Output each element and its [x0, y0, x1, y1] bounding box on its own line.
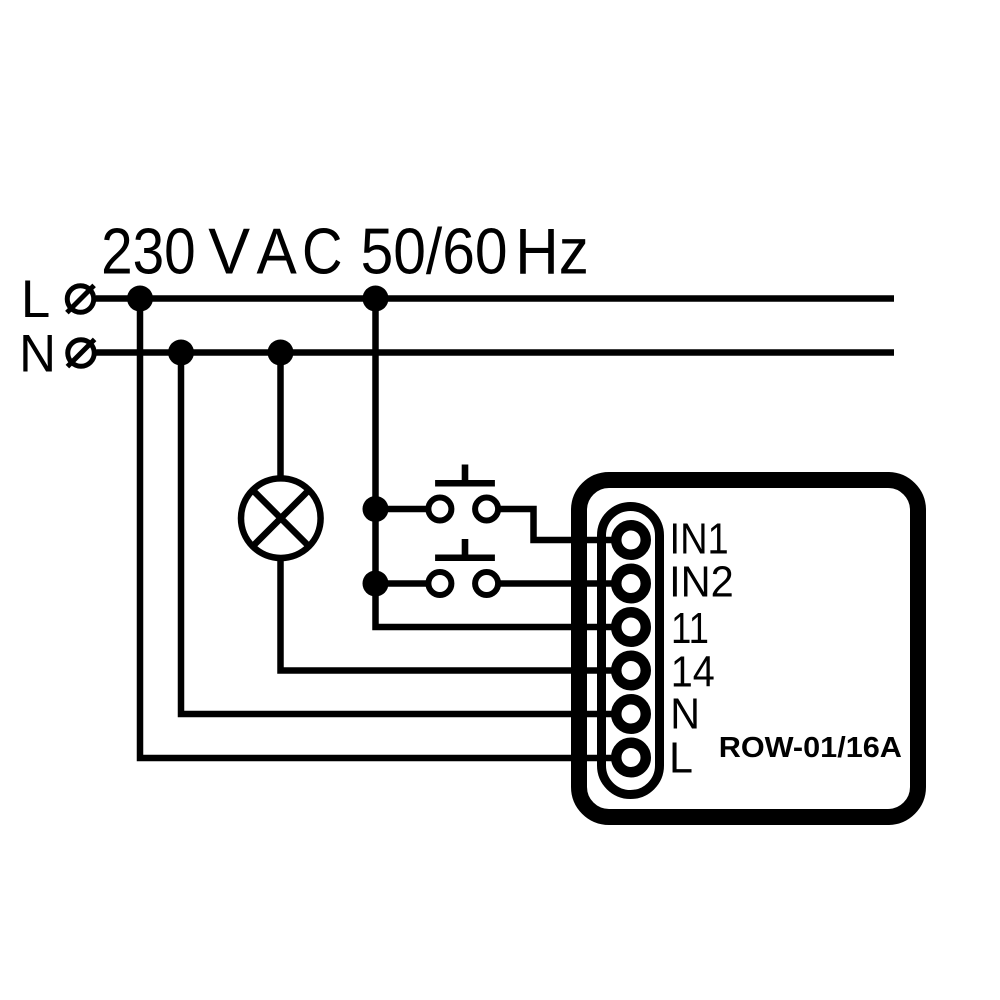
wire: S1 right contact to module terminal IN1	[498, 509, 617, 540]
junction at button S2 tap	[363, 571, 389, 597]
svg-text:230: 230	[101, 215, 196, 287]
terminal 14	[616, 656, 646, 686]
svg-text:11: 11	[671, 604, 709, 653]
svg-text:ROW-01/16A: ROW-01/16A	[719, 732, 902, 764]
push button S1	[428, 465, 498, 521]
junction on L bus at x=140	[127, 286, 153, 312]
wire: tap to S2 left contact	[376, 580, 429, 587]
push button S2	[428, 539, 498, 595]
wire L bus	[96, 295, 894, 302]
wire: L drop at x=375.5 through buttons to module terminal 11	[376, 299, 618, 628]
junction on N bus at x=181	[168, 340, 194, 366]
wire: L drop at x=140 to module terminal L	[140, 299, 617, 759]
terminal IN2	[616, 569, 646, 599]
svg-text:L: L	[669, 734, 693, 782]
wire: lamp bottom to module terminal 14	[281, 558, 618, 671]
svg-text:N: N	[670, 689, 700, 737]
svg-text:C: C	[302, 215, 342, 288]
title: 230 V AC 50/60 Hz	[101, 214, 589, 288]
svg-text:L: L	[21, 270, 50, 329]
svg-text:IN2: IN2	[669, 558, 734, 607]
wire: N branch down to lamp	[277, 353, 284, 479]
relay module ROW-01/16A outline	[579, 480, 918, 817]
svg-text:Hz: Hz	[515, 215, 589, 288]
terminal N	[616, 699, 646, 729]
wire: S2 right contact to module terminal IN2	[498, 580, 617, 587]
junction at button S1 tap	[363, 496, 389, 522]
svg-text:50/60: 50/60	[361, 216, 508, 288]
terminal L	[67, 285, 94, 312]
terminal block	[602, 507, 660, 795]
terminal 11	[616, 612, 646, 642]
terminal L	[616, 743, 646, 773]
junction on N bus at x=280	[268, 340, 294, 366]
wire N bus	[97, 349, 895, 356]
svg-text:IN1: IN1	[670, 514, 729, 563]
terminal N	[67, 339, 94, 366]
wire: N drop at x=181 to module terminal N	[181, 353, 617, 715]
svg-text:N: N	[19, 325, 56, 384]
svg-text:V: V	[208, 214, 250, 287]
lamp E1	[241, 478, 321, 558]
terminal IN1	[616, 525, 646, 555]
svg-text:A: A	[257, 215, 297, 287]
wire: tap to S1 left contact	[376, 506, 429, 513]
junction on L bus at x=375.5	[363, 286, 389, 312]
